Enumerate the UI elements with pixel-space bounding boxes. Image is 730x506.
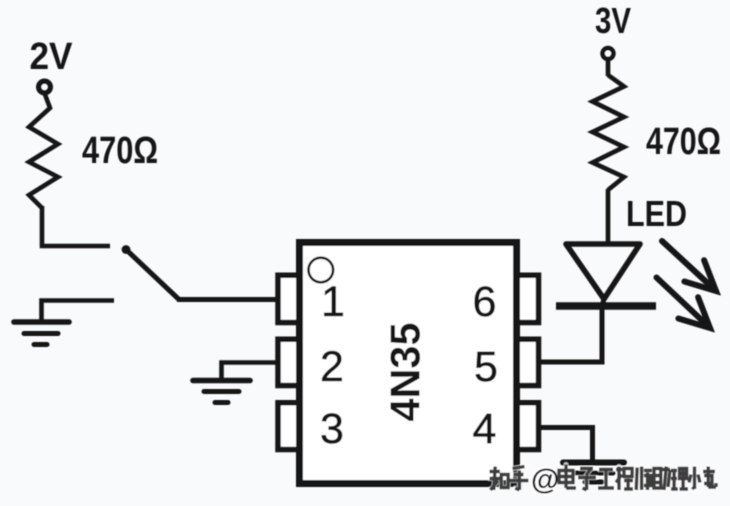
svg-text:3: 3	[320, 405, 344, 453]
svg-text:1: 1	[321, 278, 345, 326]
svg-text:2V: 2V	[30, 36, 74, 78]
svg-text:470Ω: 470Ω	[646, 121, 721, 163]
svg-text:6: 6	[473, 278, 497, 326]
svg-text:LED: LED	[626, 193, 687, 234]
svg-text:4: 4	[473, 405, 497, 453]
svg-text:3V: 3V	[595, 0, 631, 41]
svg-text:4N35: 4N35	[382, 323, 429, 422]
svg-text:5: 5	[474, 343, 498, 391]
svg-text:2: 2	[320, 343, 344, 391]
svg-text:470Ω: 470Ω	[82, 130, 158, 172]
svg-text:@: @	[531, 464, 559, 496]
